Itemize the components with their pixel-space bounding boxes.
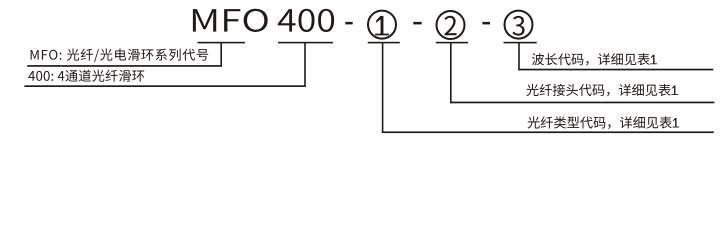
title text "MFO" (193, 9, 268, 32)
right label text "光纤接头代码，详细见表1" (526, 84, 678, 97)
left label text "400: 4通道光纤滑环" (28, 70, 144, 82)
circled number 1 : digit 1 (375, 16, 389, 35)
leader drop from "400" to channel label (304, 42, 306, 87)
circled number 2 : circle (437, 11, 465, 39)
underline of right label "fiber type code" (382, 131, 714, 133)
underline of left label "MFO: ..." (27, 65, 222, 67)
right label text "光纤类型代码，详细见表1" (528, 116, 680, 129)
leader drop from circled 1 to fiber-type label (382, 42, 384, 133)
separator dash 2 (413, 22, 421, 25)
underline below circled 3 (504, 42, 537, 44)
circled number 1 : circle (368, 11, 396, 39)
underline of left label "400: ..." (24, 85, 305, 87)
right label text "波长代码，详细见表1" (532, 53, 657, 66)
separator dash 3 (482, 22, 490, 25)
circled number 3 : digit 3 (512, 16, 524, 36)
underline below "400" (278, 42, 333, 44)
title text "400" (278, 9, 334, 32)
leader drop from "MFO" to series label (220, 42, 222, 67)
underline of right label "wavelength code" (518, 69, 713, 71)
left label text "MFO: 光纤/光电滑环系列代号" (31, 49, 209, 62)
underline below circled 1 (368, 42, 400, 44)
underline below "MFO" (198, 42, 246, 44)
underline of right label "fiber connector code" (450, 102, 714, 104)
circled number 3 : circle (505, 11, 533, 39)
separator dash 1 (345, 22, 352, 25)
circled number 2 : digit 2 (444, 16, 456, 35)
leader drop from circled 2 to connector label (450, 42, 452, 103)
underline below circled 2 (436, 42, 468, 44)
leader drop from circled 3 to wavelength label (518, 42, 520, 70)
